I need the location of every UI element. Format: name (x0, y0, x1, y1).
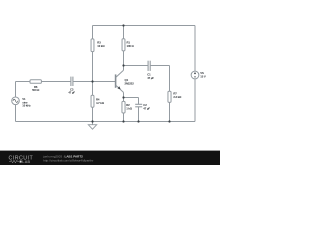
svg-text:10 kHz: 10 kHz (22, 104, 31, 108)
capacitor C1 plates (147, 61, 149, 71)
wire R6 to C3 (41, 81, 71, 83)
svg-text:500 Ω: 500 Ω (32, 88, 40, 92)
ground symbol (92, 122, 94, 125)
voltage source VS minus sign (194, 76, 196, 78)
wire C1 to output corner (150, 65, 169, 67)
resistor R1 body (122, 39, 125, 51)
wire right branch lower (VS to bottom rail) (194, 79, 196, 122)
wire C2 branch lower (138, 107, 140, 122)
resistor R6 body (30, 80, 41, 84)
node bottom rail / ground (91, 120, 93, 122)
svg-text:4.7 kΩ: 4.7 kΩ (96, 101, 105, 105)
wire emitter stub (123, 92, 125, 97)
voltage source V1 sine glyph (13, 99, 18, 102)
footer black bar (0, 151, 220, 165)
voltage source VS circle (191, 71, 199, 79)
CircuitLab logo arrow block (20, 161, 22, 163)
transistor Q1 emitter diagonal (116, 85, 124, 92)
resistor R7 body (168, 91, 171, 102)
node emitter junction (122, 96, 124, 98)
node top rail / R1 (122, 24, 124, 26)
svg-text:47 µF: 47 µF (68, 91, 75, 95)
transistor Q1 collector diagonal (116, 70, 124, 77)
svg-text:2.2 kΩ: 2.2 kΩ (173, 95, 182, 99)
wire C3 to base (73, 81, 116, 83)
wire right branch upper (to VS) (194, 26, 196, 72)
wire output column through R7 (169, 66, 171, 122)
svg-text:47 µF: 47 µF (143, 106, 150, 110)
voltage source V1 circle (12, 97, 20, 105)
wire emitter column through R2 (123, 98, 125, 122)
CircuitLab logo resistor zigzag (9, 160, 19, 163)
svg-text:http://circuitlab.com/c/8vbsa4: http://circuitlab.com/c/8vbsa4/dlparibv (43, 158, 94, 162)
capacitor C2 plates (135, 103, 142, 105)
transistor Q1 emitter arrowhead (118, 86, 121, 89)
wire emitter to C2 branch (124, 97, 139, 99)
svg-text:47 µF: 47 µF (147, 76, 154, 80)
svg-text:1 kΩ: 1 kΩ (126, 106, 133, 110)
wire left branch (V1 column) (15, 82, 17, 122)
svg-text:100 Ω: 100 Ω (127, 44, 135, 48)
resistor R2 body (122, 101, 125, 113)
wire bottom rail (16, 121, 196, 123)
wire R1 column (top rail to collector node) (123, 26, 125, 66)
node bottom rail / R2 (122, 120, 124, 122)
svg-text:2N2222: 2N2222 (125, 81, 135, 85)
wire input segment (corner to R6) (16, 81, 31, 83)
voltage source VS plus sign (194, 72, 196, 74)
wire collector stub (123, 66, 125, 71)
resistor R3 body (91, 39, 94, 52)
resistor R4 body (91, 95, 94, 107)
node collector junction (122, 64, 124, 66)
wire collector node to C1 (124, 65, 149, 67)
wire bias column R3/R4 (92, 26, 94, 122)
node bottom rail / R7 (168, 120, 170, 122)
node bottom rail / C2 (137, 120, 139, 122)
svg-text:15 V: 15 V (200, 74, 206, 78)
svg-text:10 kΩ: 10 kΩ (97, 44, 105, 48)
svg-text:joeln.eng2003 : LAB1 PART2: joeln.eng2003 : LAB1 PART2 (42, 154, 83, 158)
svg-text:LAB: LAB (22, 160, 30, 164)
capacitor C3 plates (70, 77, 72, 86)
node base / bias divider (91, 80, 93, 82)
transistor Q1 base bar (114, 74, 117, 87)
wire C2 branch upper (138, 98, 140, 105)
wire top rail (93, 25, 196, 27)
